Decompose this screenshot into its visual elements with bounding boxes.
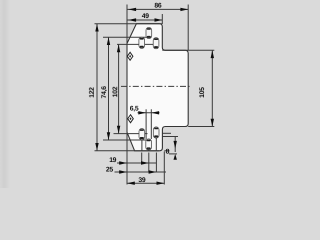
diamond D2 upper [127,52,133,60]
dim 8 line [174,137,176,153]
dim B bottom extension [103,139,149,141]
dim 8 down arrow [174,141,177,149]
step edge extension to 105 dim [162,49,214,51]
dim 8 upper extension line 2 [162,136,178,138]
svg-text:74,6: 74,6 [101,86,108,99]
dimension 49 left arrow [128,18,136,21]
dim 6,5 extension line right [150,109,152,139]
dim A top arrow [95,24,98,32]
left edge / vertical extension line full height [126,5,128,185]
extension below part x147.5 [148,153,150,173]
left dim A line 122 [96,24,98,151]
dim 6,5 line [138,112,160,114]
extension below part right edge x164.3 [163,152,165,185]
dimension 49 right arrow [155,18,163,21]
dim 105 bottom arrow [211,119,214,127]
dim 39 left arrow [127,182,135,185]
slot S2 top left [139,37,145,48]
dimension 86 line [127,8,188,10]
right dim 105 line [211,50,213,126]
dim 6,5 extension line left [145,109,147,139]
bottom edge extension line (dim A bottom) [95,150,160,152]
part body outline [127,24,188,151]
dim C bottom arrow [117,126,120,134]
svg-text:122: 122 [89,87,96,98]
svg-text:105: 105 [199,87,206,98]
dim 8 label leader [169,153,177,155]
left dim B line [108,37,110,140]
extension below part x156.5 [155,153,157,173]
dim 25 line [115,171,167,173]
dim 39 right arrow [157,182,165,185]
slot S1 top middle [146,27,152,38]
dim 8 lower extension stub [164,150,169,152]
dim 6,5 left arrow [138,111,146,114]
dim B bottom arrow [107,132,110,140]
dimension 86 left arrow [128,8,136,11]
dim 6,5 right arrow [151,111,159,114]
dim 19 line [117,162,156,164]
dimension 86 right arrow [180,8,188,11]
right edge extension (86 dim) [187,5,189,51]
slot S5 centerline stub [155,138,157,151]
centerline dash-dot [121,85,190,87]
extension below part x137 [141,153,143,164]
svg-text:8: 8 [166,149,170,156]
svg-text:102: 102 [112,86,119,97]
svg-text:86: 86 [154,2,162,9]
svg-text:39: 39 [138,177,146,184]
dimension 49 line [127,19,162,21]
slot S5 bottom right [153,127,159,138]
dim A bottom arrow [95,143,98,151]
dim 8 upper extension line 1 [162,132,171,134]
left dim C line [118,44,120,133]
dim B top extension to slot S1 [103,36,149,38]
dim 25 left arrow [119,170,127,173]
dim 19 right arrow [141,161,149,164]
dim C top extension to slot row 2 [117,43,156,45]
slot S4 centerline stub [141,140,143,151]
svg-text:49: 49 [142,13,150,20]
svg-text:25: 25 [106,166,114,173]
slot S3 top right [153,38,159,49]
dim 105 top arrow [211,50,214,58]
wide body bottom extension to 105 dim [188,126,214,128]
dim 19 left arrow [119,161,127,164]
svg-text:19: 19 [109,157,117,164]
slot S4 bottom left [139,129,145,140]
svg-text:6,5: 6,5 [130,106,139,113]
dim C top arrow [117,44,120,52]
dim C bottom extension [114,133,148,135]
dim 39 line [127,182,164,184]
slot S6 centerline stub [148,148,150,150]
dim B top arrow [107,37,110,45]
slot S6 bottom middle [146,139,152,150]
top edge extension line (dim A top) [95,23,163,25]
dim 8 up arrow [174,154,177,160]
49 right extension [161,14,163,24]
diamond D1 lower [128,115,134,123]
dim 25 right arrow [149,170,157,173]
